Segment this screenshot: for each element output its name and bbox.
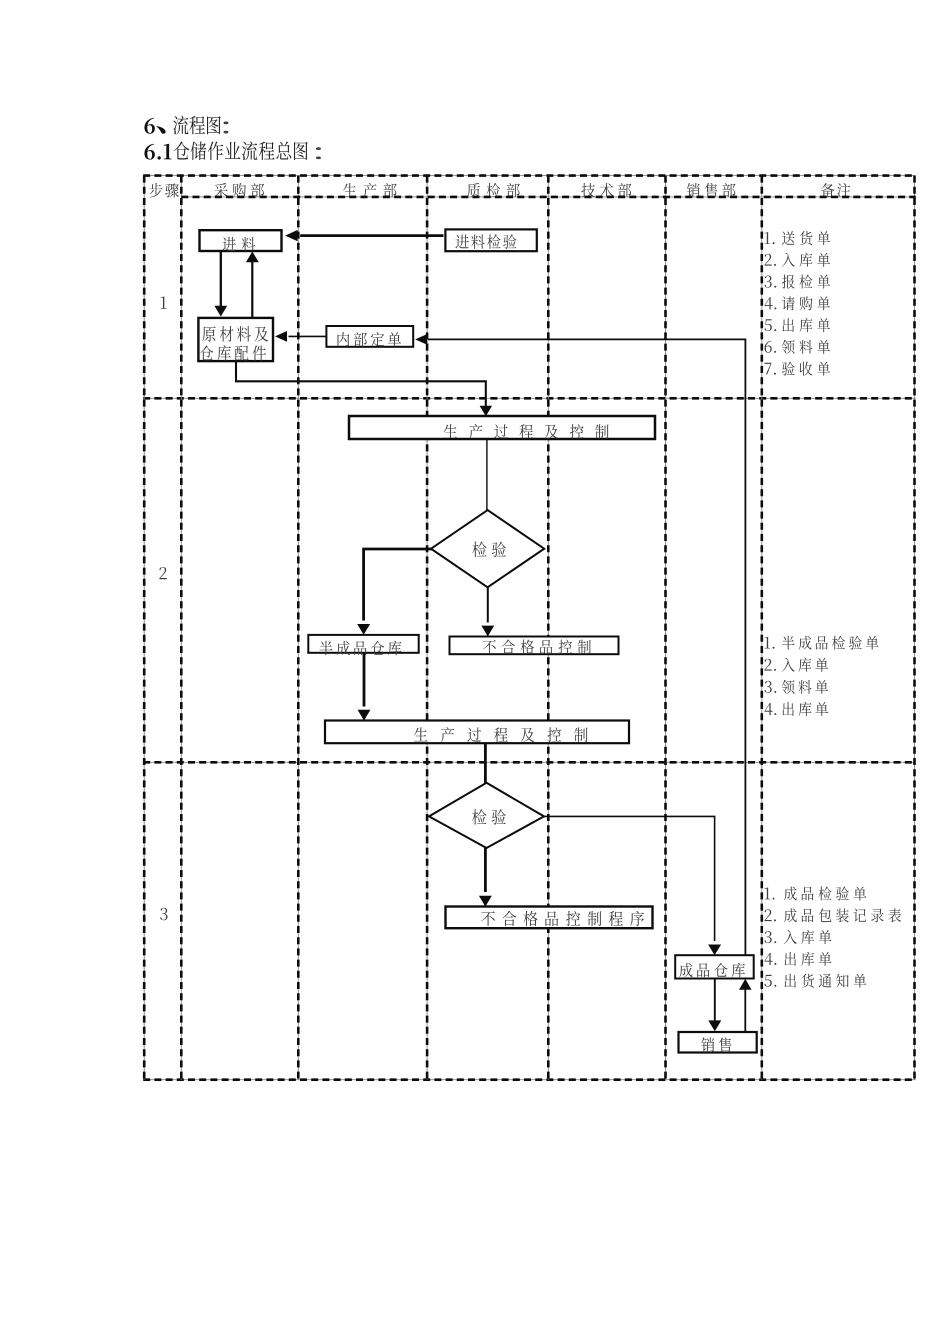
header 质检部	[467, 183, 520, 198]
header 备注	[821, 183, 850, 197]
header 采购部	[214, 183, 264, 197]
remark row2 item 3 number	[765, 681, 777, 693]
title line2 bold number 6.1	[144, 144, 171, 160]
remark row2 item 4 text 出库单	[782, 702, 828, 716]
title line2 colon	[316, 147, 321, 159]
box text 不合格品控制	[483, 640, 591, 655]
remark row3 item 2 number	[765, 909, 776, 921]
diamond 检验 #1	[431, 510, 544, 587]
box 内部定单	[326, 326, 413, 347]
remark row2 item 1 number	[765, 637, 775, 649]
branch diamond2 bottom to 不合格品控制程序	[484, 848, 487, 892]
remark row3 item 3 number	[765, 931, 777, 943]
remark row2 item 1 text 半成品检验单	[782, 636, 879, 650]
remark row3 item 4 number	[765, 953, 777, 965]
arrow line 内部定单 to 原材料及仓库配件	[289, 335, 326, 337]
branch diamond1 bottom to 不合格品控制	[487, 588, 489, 623]
remark row3 item 3 text 入库单	[784, 930, 832, 944]
arrow line 进料 down to 原材料及仓库配件	[220, 252, 222, 307]
remark row3 item 1 text 成品检验单	[784, 887, 866, 901]
remark row3 item 5 text 出货通知单	[785, 974, 867, 988]
box 进料	[200, 230, 282, 251]
box 成品仓库	[675, 955, 754, 978]
remark row1 item 6 text 领料单	[782, 340, 830, 354]
table column line right edge	[914, 176, 916, 1080]
header 技术部	[581, 183, 631, 197]
box text line1 原材料及	[202, 326, 268, 342]
table top border	[143, 175, 916, 177]
box 原材料及仓库配件	[198, 318, 273, 361]
remark row3 item 5 number	[765, 975, 777, 987]
table column line production/QC	[426, 176, 428, 1080]
arrow line 原材料及仓库配件 up to 进料	[251, 262, 253, 317]
remark row2 item 3 text 领料单	[782, 680, 829, 694]
table column line purchasing/production	[297, 176, 299, 1080]
box text 生产过程及控制 #1	[444, 424, 609, 439]
remark row1 item 2 number	[765, 254, 776, 266]
title line1 bold number 6	[144, 118, 154, 134]
title line2 text	[174, 141, 308, 160]
table column line steps/purchasing	[180, 176, 182, 1080]
arrowhead into 成品仓库 bottom	[739, 979, 752, 990]
connector 原材料及仓库配件 to 生产过程及控制	[236, 362, 486, 407]
remark row2 item 4 number	[765, 703, 777, 715]
header 销售部	[687, 183, 736, 198]
diamond text 检验 #2	[472, 809, 506, 825]
remark row1 item 7 number	[764, 363, 776, 375]
arrowhead into 生产过程及控制 top	[480, 406, 493, 417]
remark row1 item 6 number	[764, 341, 776, 353]
arrowhead into 销售 top	[708, 1020, 721, 1031]
box text 成品仓库	[679, 963, 745, 978]
remark row1 item 7 text 验收单	[782, 362, 830, 376]
table bottom border	[143, 1079, 916, 1081]
remark row3 item 2 text 成品包装记录表	[784, 908, 901, 922]
remark row1 item 3 number	[765, 276, 777, 288]
arrow line 成品仓库 to 销售	[714, 979, 716, 1021]
arrowhead into 不合格品控制程序 top	[479, 896, 492, 907]
remark row2 item 2 text 入库单	[782, 658, 829, 672]
table row separator 1/2	[143, 397, 916, 399]
box text 不合格品控制程序	[481, 911, 644, 926]
table row separator 2/3	[143, 761, 916, 763]
remark row1 item 1 text 送货单	[782, 231, 830, 245]
header 步骤	[149, 183, 178, 197]
arrowhead into 生产过程及控制 #2 top	[358, 710, 371, 721]
remark row1 item 2 text 入库单	[782, 253, 830, 267]
remark row1 item 3 text 报检单	[782, 275, 830, 289]
remark row1 item 5 text 出库单	[783, 318, 831, 332]
diamond 检验 #2	[429, 783, 544, 848]
title line1 text 流程图	[173, 116, 221, 135]
table column line QC/technology	[547, 176, 549, 1080]
arrowhead into 半成品仓库 top	[357, 624, 370, 635]
arrowhead into 成品仓库 top	[708, 945, 721, 956]
box text line2 仓库配件	[200, 345, 266, 361]
line 生产过程及控制 to 检验 diamond 1	[486, 440, 488, 512]
table column line sales/remarks	[761, 176, 763, 1080]
remark row1 item 4 text 请购单	[782, 296, 830, 310]
line 生产过程及控制 #2 to 检验 diamond 2	[484, 743, 487, 784]
branch diamond1 left to 半成品仓库	[364, 549, 432, 621]
box text 半成品仓库	[319, 641, 401, 656]
remark row1 item 5 number	[765, 319, 777, 331]
table header bottom border	[181, 196, 916, 198]
box 不合格品控制	[450, 637, 619, 655]
arrow line 半成品仓库 to 生产过程及控制 #2	[363, 653, 366, 707]
box 进料检验	[445, 229, 536, 251]
box 不合格品控制程序	[446, 907, 653, 929]
arrowhead into 内部定单 right	[415, 334, 427, 345]
remark row3 item 4 text 出库单	[785, 952, 832, 966]
step number 2	[159, 567, 166, 579]
branch diamond2 right to 成品仓库	[544, 816, 715, 941]
table column line technology/sales	[665, 176, 667, 1080]
arrowhead into 进料 right	[285, 230, 297, 241]
remark row1 item 1 number	[765, 232, 775, 244]
remark row1 item 4 number	[765, 297, 777, 309]
box 销售	[679, 1032, 757, 1053]
diamond text 检验 #1	[472, 542, 506, 558]
box text 内部定单	[338, 332, 402, 346]
table column line left edge	[143, 176, 145, 1080]
box 生产过程及控制 #2	[325, 721, 629, 744]
arrowhead into 不合格品控制 top	[481, 626, 494, 637]
arrowhead into 原材料及仓库配件 right	[275, 331, 287, 342]
box text 进料检验	[455, 234, 516, 249]
step number 1	[161, 297, 167, 309]
step number 3	[160, 908, 167, 921]
box 半成品仓库	[308, 635, 418, 653]
title line1 enumeration comma	[156, 126, 165, 134]
title line1 colon	[223, 122, 228, 134]
box text 生产过程及控制 #2	[414, 727, 588, 742]
feedback line 成品仓库 up to 内部定单	[428, 339, 745, 954]
box text 销售	[701, 1037, 731, 1052]
box text 进料	[222, 237, 255, 251]
arrow line 销售 up to 成品仓库	[744, 989, 746, 1032]
arrow line 进料检验 to 进料	[300, 234, 443, 237]
arrowhead into 进料 bottom	[246, 252, 259, 263]
remark row3 item 1 number	[765, 887, 775, 899]
box 生产过程及控制 #1	[349, 416, 655, 439]
arrowhead into 原材料及仓库配件 top	[214, 306, 227, 317]
remark row2 item 2 number	[765, 659, 776, 671]
header 生产部	[343, 183, 397, 198]
